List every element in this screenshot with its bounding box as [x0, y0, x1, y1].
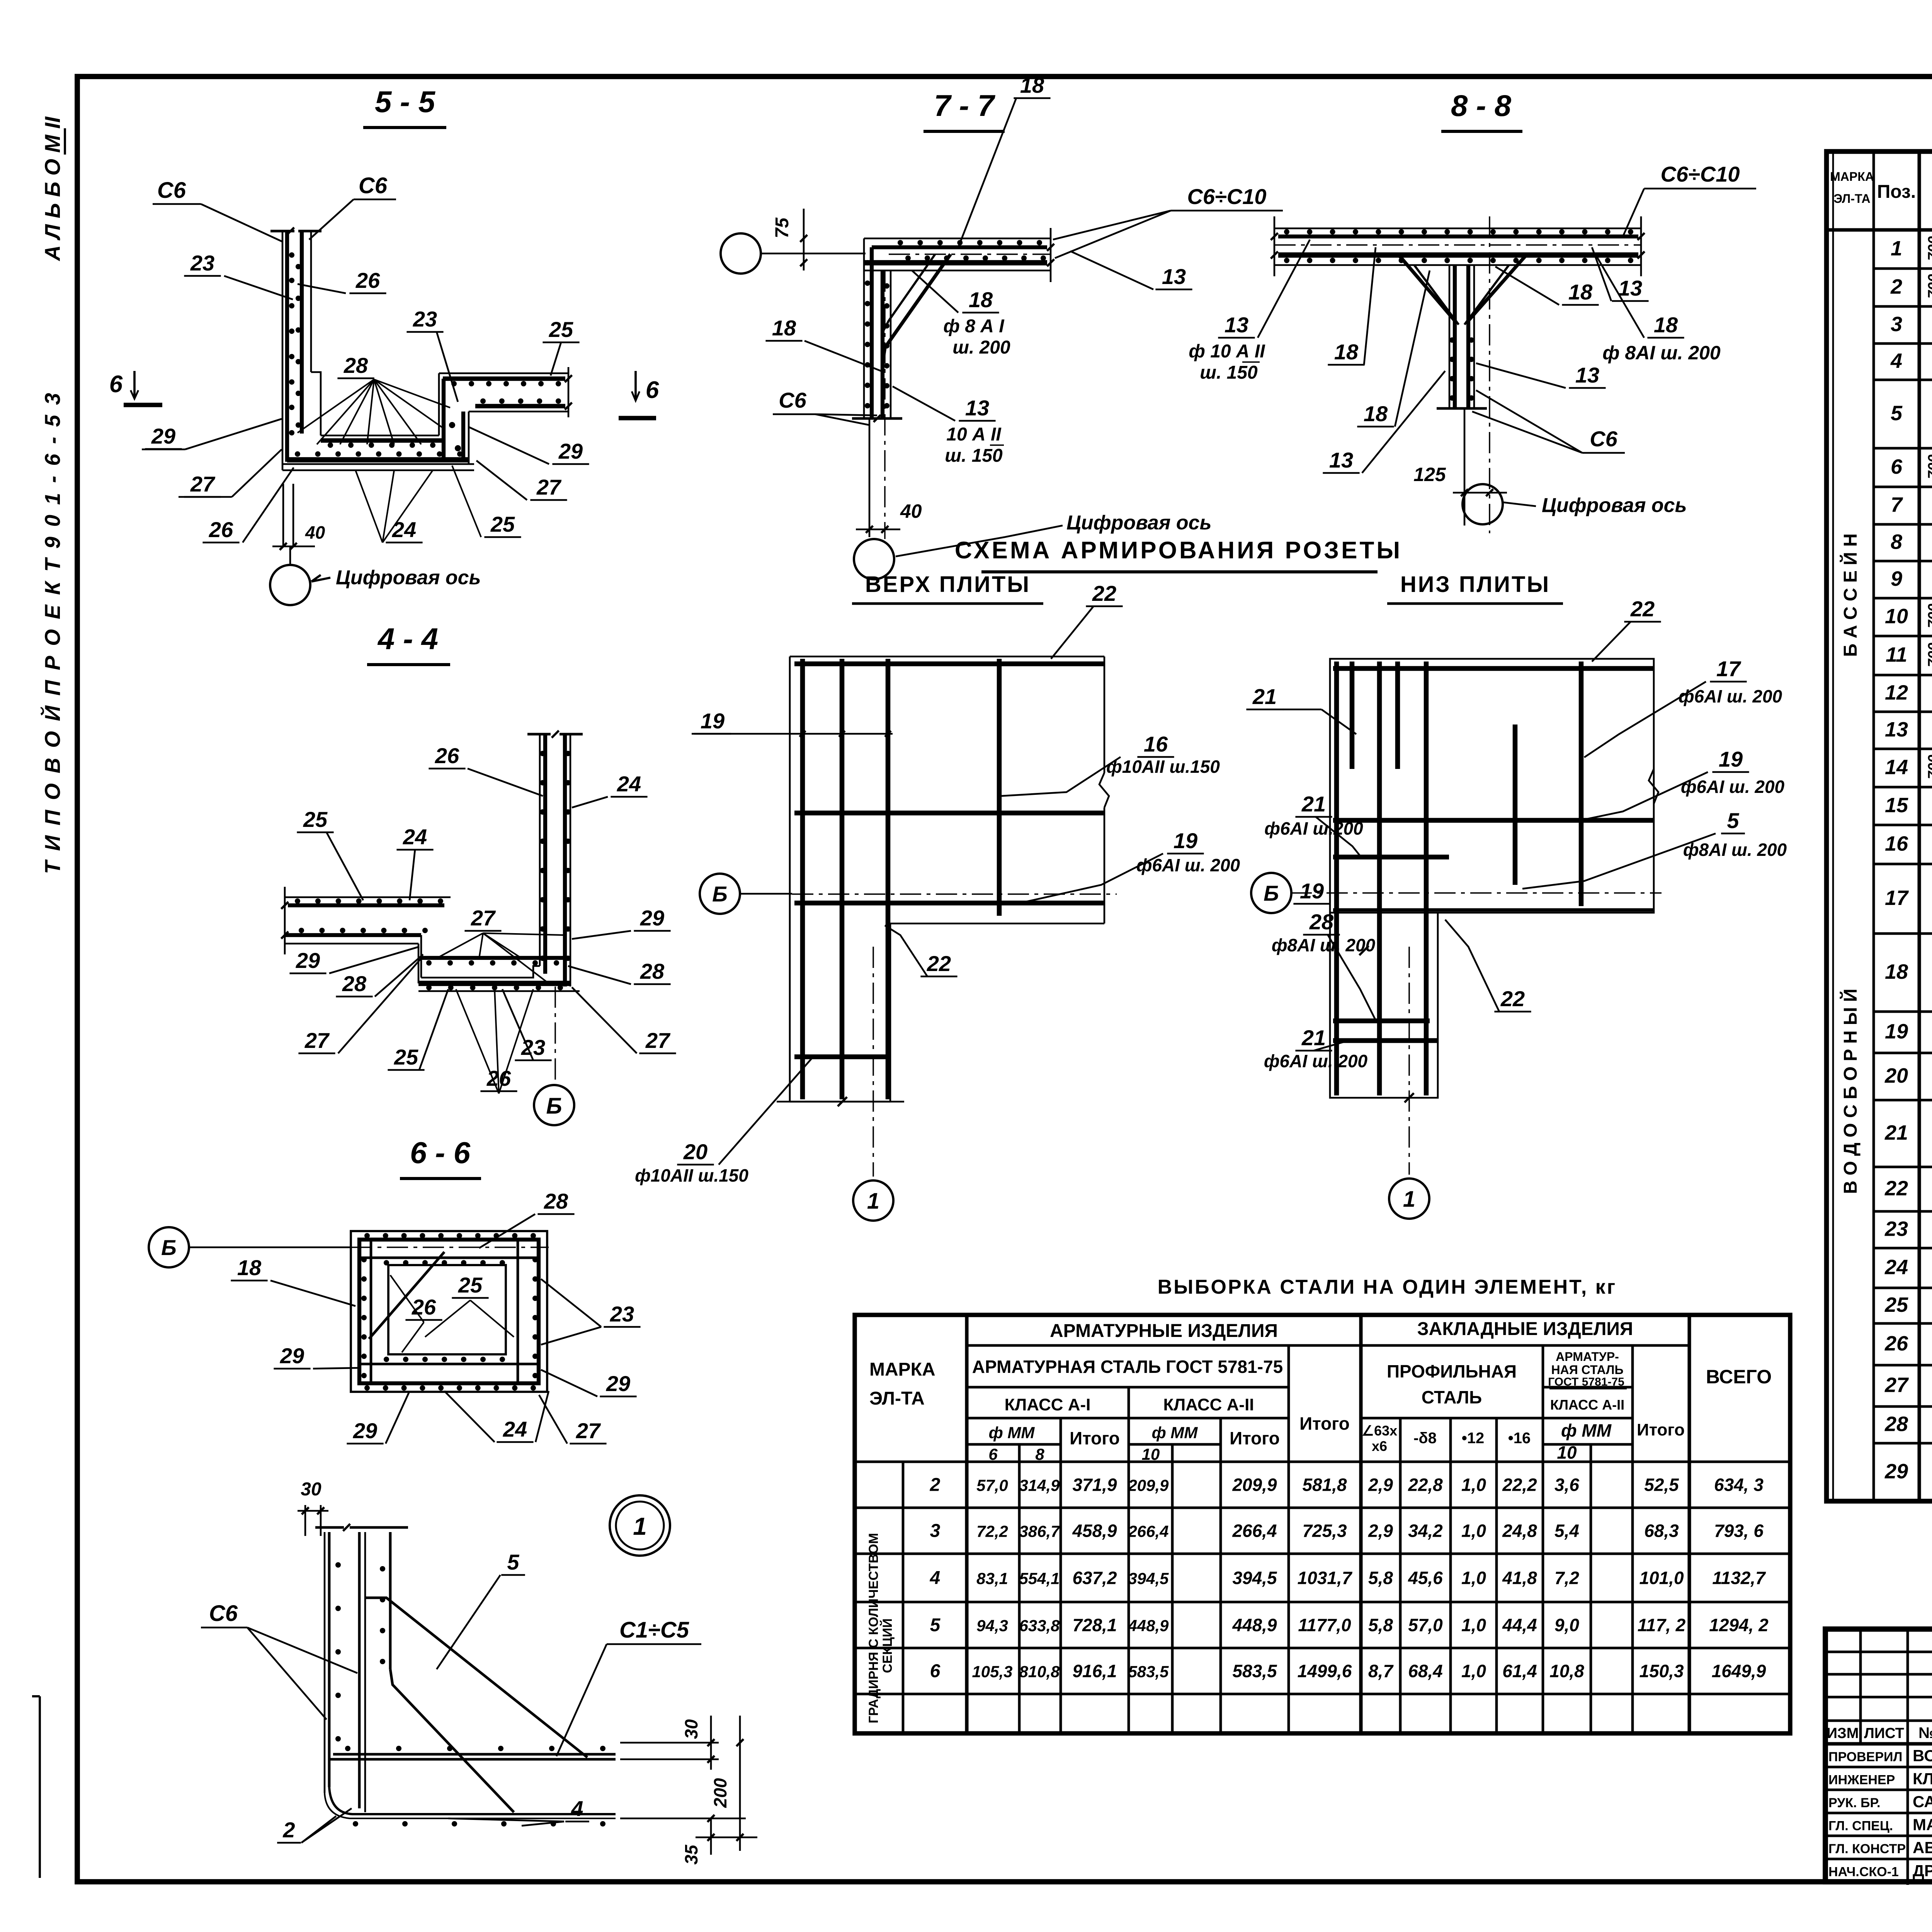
7-7 dimension 40 [856, 500, 922, 533]
7-7 label digital axis [896, 512, 1211, 556]
svg-text:57,0: 57,0 [976, 1476, 1008, 1495]
svg-text:27: 27 [576, 1418, 601, 1443]
4-4 label 26 bottom [456, 989, 533, 1094]
svg-text:1: 1 [1403, 1187, 1415, 1212]
svg-text:44,4: 44,4 [1502, 1615, 1537, 1635]
section title 8-8 [1441, 88, 1522, 131]
svg-text:С6: С6 [359, 173, 388, 198]
svg-text:700: 700 [1925, 643, 1932, 667]
svg-text:Цифровая ось: Цифровая ось [336, 566, 481, 589]
6-6 dots [361, 1233, 538, 1391]
svg-text:ГЛ. КОНСТР: ГЛ. КОНСТР [1828, 1842, 1906, 1856]
8-8 label 18 phi8AI [1596, 255, 1721, 364]
svg-text:105,3: 105,3 [972, 1663, 1012, 1681]
svg-text:35: 35 [681, 1844, 701, 1865]
svg-text:С1÷С5: С1÷С5 [619, 1617, 689, 1643]
svg-text:20: 20 [683, 1139, 707, 1164]
svg-text:26: 26 [209, 517, 233, 542]
svg-text:18: 18 [1364, 401, 1388, 426]
svg-text:5: 5 [1727, 808, 1739, 833]
svg-text:4 - 4: 4 - 4 [377, 622, 438, 656]
svg-text:15: 15 [1885, 794, 1908, 817]
label 28 fan [298, 353, 450, 444]
svg-text:371,9: 371,9 [1072, 1475, 1117, 1495]
svg-text:С6: С6 [209, 1601, 238, 1626]
bar table row 22 common length [1884, 1172, 1932, 1202]
8-8 label C6 bottom right [1472, 390, 1625, 453]
svg-text:28: 28 [344, 353, 368, 378]
svg-text:ЭЛ-ТА: ЭЛ-ТА [869, 1388, 925, 1409]
svg-text:Б: Б [161, 1235, 177, 1260]
svg-text:1,0: 1,0 [1461, 1521, 1486, 1541]
svg-text:8 - 8: 8 - 8 [1451, 88, 1512, 122]
bar table row 23 [1884, 1216, 1932, 1249]
bar table row 1 [1891, 236, 1932, 261]
margin text: typical project 901-6-53 [40, 391, 65, 874]
svg-text:18: 18 [772, 316, 796, 340]
4-4 label 24 left [396, 825, 433, 900]
svg-text:ф 8АI ш. 200: ф 8АI ш. 200 [1602, 342, 1721, 364]
label 26 bottom left [202, 468, 294, 543]
svg-text:28: 28 [1309, 910, 1334, 934]
svg-text:810,8: 810,8 [1019, 1663, 1060, 1681]
svg-text:27: 27 [190, 472, 216, 496]
svg-text:ф10АII ш.150: ф10АII ш.150 [635, 1165, 748, 1185]
niz thick vertical bars [1337, 662, 1581, 1095]
8-8 label 13 mid right [1476, 363, 1606, 388]
bar table grid [1827, 151, 1932, 1501]
5-5 lower axis and circle [270, 484, 310, 605]
4-4 bottom slab dots [426, 960, 563, 990]
8-8 label C6-C10 top right [1623, 162, 1756, 236]
svg-text:13: 13 [1575, 363, 1599, 387]
svg-text:5: 5 [930, 1615, 941, 1636]
4-4 bottom slab outline [418, 935, 580, 991]
svg-text:19: 19 [1300, 879, 1324, 903]
svg-text:ДРАМПОВ: ДРАМПОВ [1913, 1862, 1932, 1880]
bar table row 21 bent sketch [1884, 1088, 1932, 1159]
section title 5-5 [363, 85, 446, 128]
bar table row 8 [1891, 529, 1932, 554]
svg-text:1499,6: 1499,6 [1298, 1661, 1352, 1681]
svg-text:6: 6 [646, 377, 659, 403]
svg-text:45,6: 45,6 [1408, 1568, 1443, 1588]
6-6 label 24 [444, 1391, 549, 1442]
corner detail bend and bottom slab [325, 1754, 616, 1818]
bar table row 16 L sketch [1885, 823, 1932, 870]
svg-text:Итого: Итого [1299, 1413, 1350, 1434]
svg-text:21: 21 [1884, 1121, 1908, 1145]
svg-text:21: 21 [1301, 792, 1326, 816]
4-4 label 29 left [289, 947, 419, 973]
8-8 label 13 left outer [1189, 240, 1310, 383]
niz axis circle B [1251, 873, 1291, 913]
svg-text:АРМАТУРНАЯ СТАЛЬ ГОСТ 5781: АРМАТУРНАЯ СТАЛЬ ГОСТ 5781-75 [972, 1357, 1283, 1377]
bar table row 4 [1890, 347, 1932, 372]
svg-text:27: 27 [304, 1028, 330, 1053]
section mark 6 left [109, 371, 162, 405]
svg-text:КЛАСС А-II: КЛАСС А-II [1550, 1397, 1624, 1413]
svg-text:Б: Б [546, 1094, 562, 1119]
svg-text:Б А С С Е Й Н: Б А С С Е Й Н [1840, 533, 1861, 657]
steel table rotated header [866, 1533, 895, 1723]
svg-text:ЗАКЛАДНЫЕ ИЗДЕЛИЯ: ЗАКЛАДНЫЕ ИЗДЕЛИЯ [1417, 1319, 1633, 1339]
niz plan outline [1330, 659, 1658, 1098]
8-8 label 13 bottom left [1323, 371, 1445, 473]
svg-text:ф6АI ш. 200: ф6АI ш. 200 [1136, 855, 1240, 875]
niz label 19 right [1580, 747, 1785, 820]
8-8 dimension 125 [1413, 464, 1507, 496]
svg-text:29: 29 [280, 1344, 304, 1368]
corner detail axis circle 1 [610, 1495, 670, 1556]
8-8 slab outline [1271, 216, 1645, 276]
svg-text:386,7: 386,7 [1019, 1522, 1060, 1541]
margin text: album II [40, 116, 65, 262]
section 5-5 right slab dots [449, 381, 561, 451]
svg-text:ВОЛКОВА: ВОЛКОВА [1913, 1747, 1932, 1765]
8-8 stem dots [1449, 337, 1474, 401]
svg-text:НАЯ СТАЛЬ: НАЯ СТАЛЬ [1551, 1363, 1624, 1377]
bar table row 11 [1886, 643, 1932, 667]
svg-text:АВРАМЕНКО: АВРАМЕНКО [1913, 1838, 1932, 1857]
svg-text:68,3: 68,3 [1644, 1521, 1679, 1541]
8-8 axis and circle [1463, 216, 1503, 533]
svg-text:С6: С6 [1590, 427, 1617, 451]
bar table row 27 [1884, 1370, 1932, 1397]
svg-text:448,9: 448,9 [1232, 1615, 1277, 1635]
label 23 right [406, 307, 458, 402]
7-7 label C6-C10 [1053, 184, 1283, 258]
6-6 outer box [351, 1231, 547, 1392]
svg-text:18: 18 [1885, 960, 1908, 983]
svg-text:29: 29 [558, 439, 583, 463]
svg-text:НАЧ.СКО-1: НАЧ.СКО-1 [1828, 1865, 1899, 1879]
svg-text:КЛАСС А-I: КЛАСС А-I [1005, 1395, 1091, 1414]
8-8 stem outline [1437, 265, 1487, 408]
svg-text:ф8АI ш. 200: ф8АI ш. 200 [1683, 840, 1787, 860]
svg-text:28: 28 [544, 1189, 568, 1213]
svg-text:22: 22 [1500, 986, 1525, 1011]
8-8 label 18 right inner [1495, 267, 1599, 305]
svg-text:ИНЖЕНЕР: ИНЖЕНЕР [1828, 1773, 1895, 1787]
bar table row 3 [1891, 311, 1932, 336]
svg-text:ф8АI ш. 200: ф8АI ш. 200 [1272, 935, 1376, 955]
subtitle: bottom of slab [1387, 572, 1563, 604]
6-6 label 18 [231, 1255, 355, 1306]
svg-text:25: 25 [303, 807, 328, 832]
svg-text:С6: С6 [157, 178, 186, 203]
svg-text:2,9: 2,9 [1368, 1521, 1393, 1541]
svg-text:8: 8 [1035, 1445, 1044, 1463]
svg-text:6 - 6: 6 - 6 [410, 1136, 471, 1170]
svg-text:1: 1 [867, 1189, 879, 1214]
bar table row 9 [1891, 566, 1932, 590]
svg-text:94,3: 94,3 [976, 1617, 1008, 1635]
bar table row 20 hook sketch [1884, 1045, 1932, 1104]
svg-text:554,1: 554,1 [1019, 1570, 1060, 1588]
corner detail label 5 [437, 1550, 525, 1669]
svg-text:25: 25 [549, 317, 573, 342]
svg-text:634, 3: 634, 3 [1714, 1475, 1764, 1495]
svg-text:∠63x: ∠63x [1362, 1423, 1397, 1439]
label C6 left [153, 178, 282, 241]
8-8 label 18 left [1328, 247, 1376, 365]
svg-text:266,4: 266,4 [1128, 1522, 1168, 1541]
svg-text:26: 26 [412, 1295, 436, 1319]
svg-text:394,5: 394,5 [1232, 1568, 1277, 1588]
svg-text:61,4: 61,4 [1502, 1661, 1537, 1681]
svg-text:5: 5 [507, 1550, 519, 1574]
svg-text:29: 29 [606, 1371, 630, 1396]
svg-text:28: 28 [640, 959, 665, 983]
svg-text:266,4: 266,4 [1232, 1521, 1277, 1541]
svg-text:1132,7: 1132,7 [1712, 1568, 1766, 1588]
svg-text:581,8: 581,8 [1302, 1475, 1347, 1495]
svg-text:29: 29 [640, 906, 664, 930]
7-7 slab outline [864, 228, 1054, 282]
svg-text:24: 24 [617, 772, 641, 796]
svg-text:19: 19 [701, 709, 724, 733]
corner detail label C1-C5 [556, 1617, 701, 1756]
mid label 28 phi8 [1272, 910, 1376, 1020]
svg-text:7,2: 7,2 [1554, 1568, 1579, 1588]
label 25 right [543, 317, 579, 376]
svg-text:28: 28 [1884, 1413, 1908, 1436]
svg-text:8,7: 8,7 [1368, 1661, 1394, 1681]
4-4 label 28 left [336, 954, 423, 997]
svg-text:68,4: 68,4 [1408, 1661, 1443, 1681]
svg-text:10 А II: 10 А II [946, 424, 1002, 445]
svg-text:209,9: 209,9 [1232, 1475, 1277, 1495]
svg-text:4: 4 [1890, 349, 1902, 372]
svg-text:5: 5 [1891, 402, 1903, 425]
svg-text:1,0: 1,0 [1461, 1615, 1486, 1635]
svg-text:22: 22 [1092, 581, 1116, 605]
svg-text:22: 22 [927, 951, 951, 976]
svg-text:8: 8 [1891, 531, 1902, 554]
svg-text:916,1: 916,1 [1072, 1661, 1117, 1681]
bar table row 6 [1891, 454, 1932, 479]
svg-text:19: 19 [1719, 747, 1743, 771]
svg-text:6: 6 [930, 1661, 940, 1682]
svg-text:725,3: 725,3 [1302, 1521, 1347, 1541]
svg-text:16: 16 [1885, 832, 1908, 855]
svg-text:ВЫБОРКА СТАЛИ НА ОДИН ЭЛЕМ: ВЫБОРКА СТАЛИ НА ОДИН ЭЛЕМЕНТ, кг [1158, 1276, 1617, 1298]
svg-text:29: 29 [1884, 1460, 1908, 1483]
svg-text:5,4: 5,4 [1554, 1521, 1579, 1541]
6-6 inner opening [388, 1265, 506, 1354]
svg-text:24: 24 [392, 517, 416, 542]
4-4 label 23 bottom [502, 989, 552, 1060]
svg-text:13: 13 [1162, 264, 1186, 289]
steel table title [1158, 1276, 1617, 1298]
svg-text:ГЛ. СПЕЦ.: ГЛ. СПЕЦ. [1828, 1819, 1893, 1833]
svg-text:13: 13 [1225, 313, 1248, 337]
svg-text:18: 18 [237, 1255, 262, 1280]
svg-text:458,9: 458,9 [1072, 1521, 1117, 1541]
section title 6-6 [400, 1136, 481, 1179]
rotated element mark labels [1840, 533, 1861, 1194]
svg-text:-δ8: -δ8 [1413, 1430, 1437, 1447]
niz label 5 right [1522, 808, 1787, 889]
svg-text:2: 2 [930, 1475, 940, 1495]
4-4 wall dots [540, 751, 571, 961]
svg-text:МАРЕК: МАРЕК [1913, 1816, 1932, 1834]
svg-text:1,0: 1,0 [1461, 1475, 1486, 1495]
6-6 label 23 [541, 1279, 641, 1345]
svg-text:22,8: 22,8 [1408, 1475, 1443, 1495]
bar table row 24 [1884, 1254, 1932, 1289]
svg-text:ш. 200: ш. 200 [952, 337, 1010, 358]
svg-text:16: 16 [1144, 732, 1168, 756]
svg-text:Б: Б [1264, 881, 1279, 905]
svg-text:20: 20 [1884, 1064, 1908, 1087]
svg-text:10: 10 [1557, 1442, 1577, 1463]
svg-text:18: 18 [1568, 280, 1593, 304]
svg-text:21: 21 [1301, 1026, 1326, 1050]
corner detail dots [335, 1562, 605, 1827]
svg-text:1649,9: 1649,9 [1712, 1661, 1766, 1681]
4-4 left slab outline [281, 887, 451, 954]
section 5-5 wall outline [270, 228, 321, 470]
svg-text:6: 6 [109, 371, 123, 398]
svg-text:448,9: 448,9 [1128, 1617, 1169, 1635]
svg-text:18: 18 [1334, 340, 1359, 364]
svg-text:30: 30 [681, 1719, 701, 1739]
6-6 label 26 [390, 1275, 442, 1352]
svg-text:СХЕМА АРМИРОВАНИЯ РОЗЕТЫ: СХЕМА АРМИРОВАНИЯ РОЗЕТЫ [955, 537, 1402, 564]
svg-text:Итого: Итого [1230, 1428, 1280, 1448]
label digital axis 5-5 [311, 566, 481, 589]
7-7 label 18 left [765, 316, 881, 371]
8-8 label 18 mid [1357, 270, 1430, 427]
mid label 21 top [1246, 684, 1356, 734]
svg-text:40: 40 [900, 500, 922, 522]
section title 7-7 [923, 88, 1005, 131]
bar table row 25 [1884, 1293, 1932, 1324]
svg-text:23: 23 [190, 251, 214, 275]
bar table row 10 [1885, 604, 1932, 628]
svg-text:314,9: 314,9 [1019, 1476, 1060, 1495]
svg-text:18: 18 [1020, 73, 1044, 97]
section mark 6 right [619, 371, 659, 418]
mid label 19 [1293, 879, 1345, 912]
svg-text:1,0: 1,0 [1461, 1661, 1486, 1681]
6-6 axis B circle [149, 1227, 549, 1267]
svg-text:9: 9 [1891, 567, 1902, 590]
svg-text:57,0: 57,0 [1408, 1615, 1443, 1635]
svg-text:СЕКЦИЙ: СЕКЦИЙ [880, 1618, 895, 1673]
subtitle: top of slab [852, 572, 1043, 604]
title block header row [1827, 1725, 1932, 1742]
svg-text:209,9: 209,9 [1128, 1476, 1169, 1495]
4-4 label 28 right [568, 959, 671, 984]
6-6 label 28 [479, 1189, 575, 1248]
svg-text:САСОНКО: САСОНКО [1913, 1793, 1932, 1811]
svg-text:№ ДОКУМ.: № ДОКУМ. [1918, 1725, 1932, 1742]
8-8 slab dots [1284, 229, 1633, 263]
svg-text:ф 8 А I: ф 8 А I [943, 316, 1005, 337]
svg-text:3: 3 [930, 1521, 940, 1541]
svg-text:18: 18 [1654, 313, 1678, 337]
svg-text:700: 700 [1925, 604, 1932, 628]
corner detail diagonal bars [359, 1598, 616, 1812]
svg-text:28: 28 [342, 971, 367, 996]
svg-text:С6÷С10: С6÷С10 [1187, 184, 1266, 209]
steel table grid [855, 1315, 1790, 1733]
corner detail label 2 [277, 1808, 352, 1843]
6-6 inner bars [359, 1240, 539, 1383]
svg-text:х6: х6 [1372, 1438, 1387, 1454]
svg-text:700: 700 [1925, 755, 1932, 779]
svg-text:18: 18 [969, 287, 993, 312]
label 25 bottom right [452, 466, 521, 537]
corner detail right dimensions 30 200 35 [618, 1716, 757, 1865]
corner detail wall [315, 1524, 408, 1793]
verh thick horizontal bars [794, 664, 1104, 1057]
svg-text:23: 23 [1884, 1218, 1908, 1241]
4-4 wall outline [527, 731, 583, 986]
verh label 19 left [692, 709, 893, 737]
6-6 label 29 a [274, 1344, 361, 1369]
svg-text:Цифровая ось: Цифровая ось [1066, 512, 1211, 534]
svg-text:1031,7: 1031,7 [1298, 1568, 1353, 1588]
7-7 axis circle left [721, 233, 866, 274]
svg-text:МАРКА: МАРКА [869, 1359, 935, 1380]
svg-text:4: 4 [930, 1568, 940, 1588]
svg-text:21: 21 [1252, 684, 1277, 709]
svg-text:13: 13 [965, 396, 989, 420]
svg-text:19: 19 [1885, 1020, 1908, 1043]
svg-text:34,2: 34,2 [1408, 1521, 1443, 1541]
4-4 label 27 bottom right [572, 987, 676, 1053]
svg-text:10,8: 10,8 [1549, 1661, 1584, 1681]
4-4 axis circle B right [700, 874, 792, 914]
svg-text:НИЗ ПЛИТЫ: НИЗ ПЛИТЫ [1400, 572, 1550, 597]
7-7 label 18 phi8 [912, 270, 1010, 358]
label C6 right [309, 173, 396, 240]
svg-text:7 - 7: 7 - 7 [934, 88, 996, 122]
verh plan outline [790, 656, 1109, 1102]
7-7 lower axis to circle [854, 270, 894, 579]
4-4 label 27 bottom left [298, 958, 421, 1053]
svg-text:637,2: 637,2 [1072, 1568, 1117, 1588]
label 27 left [179, 449, 282, 497]
niz axis circle 1 [1389, 1179, 1429, 1219]
bar table row 14 [1885, 755, 1932, 779]
svg-text:ПРОФИЛЬНАЯ: ПРОФИЛЬНАЯ [1387, 1361, 1517, 1381]
bar table row 29 big hook sketch [1884, 1428, 1932, 1494]
svg-text:ф6АI ш. 200: ф6АI ш. 200 [1264, 1051, 1368, 1071]
verh axis circle 1 [853, 1180, 893, 1221]
svg-text:25: 25 [394, 1045, 418, 1069]
svg-text:30: 30 [301, 1479, 321, 1500]
7-7 dimension 75 [772, 209, 807, 270]
svg-text:9,0: 9,0 [1554, 1615, 1579, 1635]
svg-text:72,2: 72,2 [976, 1522, 1008, 1541]
svg-text:Т И П О В О Й П Р О Е К Т: Т И П О В О Й П Р О Е К Т 9 0 1 - 6 - 5 … [40, 391, 65, 874]
svg-text:Б: Б [712, 882, 728, 906]
niz thick horizontal bars [1333, 668, 1654, 1041]
svg-text:101,0: 101,0 [1639, 1568, 1684, 1588]
svg-text:27: 27 [471, 906, 496, 930]
niz break marks [1314, 946, 1414, 1102]
svg-text:ГОСТ 5781-75: ГОСТ 5781-75 [1548, 1376, 1624, 1388]
verh label 20 [635, 1059, 811, 1185]
svg-text:СТАЛЬ: СТАЛЬ [1422, 1387, 1482, 1407]
niz label 22 top [1592, 597, 1661, 662]
bar table row 18 trapezoid sketch [1885, 932, 1932, 988]
